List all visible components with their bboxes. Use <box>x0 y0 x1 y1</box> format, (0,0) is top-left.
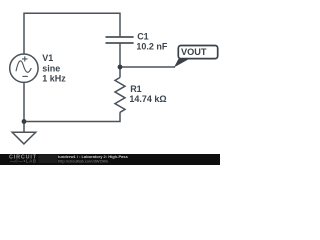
svg-text:sine: sine <box>42 63 60 73</box>
svg-text:—∕∕—▪LAB: —∕∕—▪LAB <box>10 159 36 164</box>
svg-text:R1: R1 <box>130 84 142 94</box>
svg-text:C1: C1 <box>137 31 149 41</box>
svg-text:V1: V1 <box>42 53 53 63</box>
svg-text:VOUT: VOUT <box>181 47 207 57</box>
svg-text:http://circuitlab.com/3W29hk: http://circuitlab.com/3W29hk <box>58 158 108 163</box>
svg-text:10.2 nF: 10.2 nF <box>136 41 168 51</box>
svg-text:1 kHz: 1 kHz <box>42 74 66 84</box>
svg-text:14.74 kΩ: 14.74 kΩ <box>129 94 166 104</box>
